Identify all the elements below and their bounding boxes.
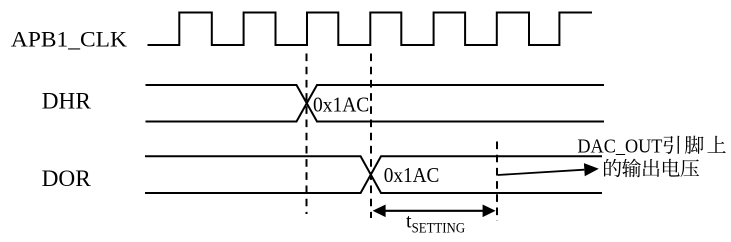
svg-text:DHR: DHR <box>42 89 92 114</box>
svg-text:DOR: DOR <box>42 166 92 191</box>
svg-text:0x1AC: 0x1AC <box>384 163 440 187</box>
svg-text:DAC_OUT: DAC_OUT <box>577 135 662 157</box>
svg-text:SETTING: SETTING <box>412 221 466 237</box>
svg-text:0x1AC: 0x1AC <box>313 93 369 117</box>
svg-text:APB1_CLK: APB1_CLK <box>11 27 127 52</box>
